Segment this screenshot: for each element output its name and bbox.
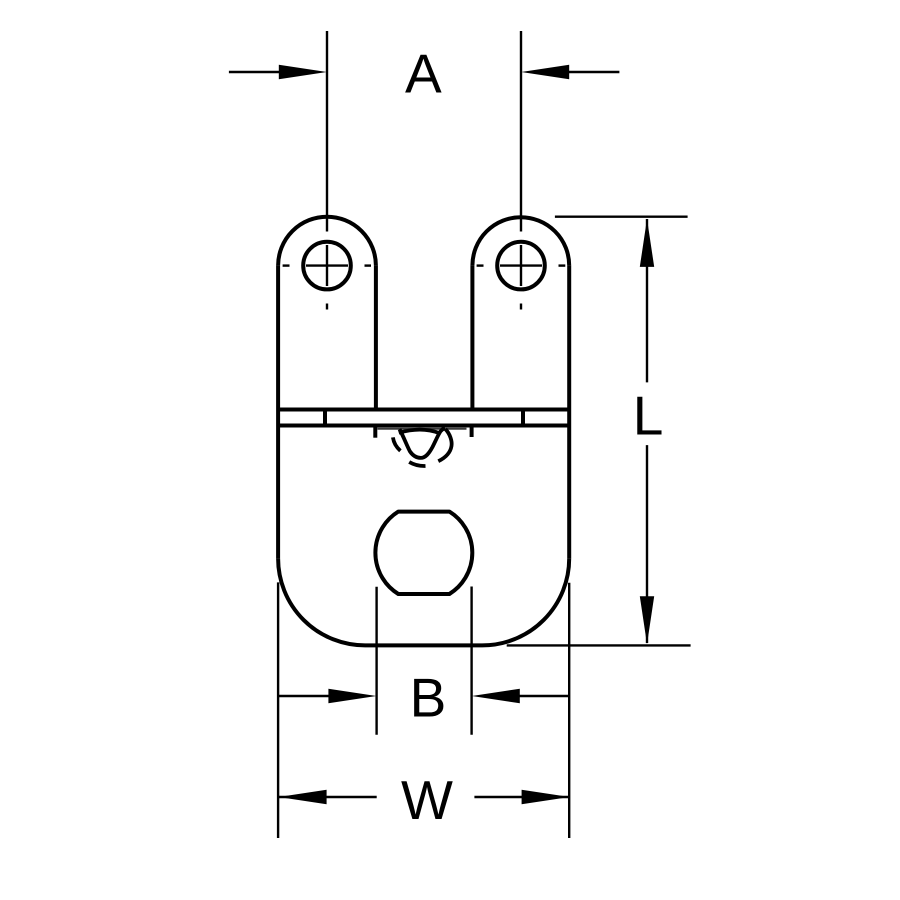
left ear top arc [278,217,376,266]
dim A arrowhead right [521,65,569,80]
svg-text:A: A [405,42,442,104]
left hole centerline horizontal segment [306,264,348,266]
band tick right [521,410,525,426]
dim A extension line right [520,31,522,232]
dim B arrowhead left [328,689,376,704]
spring dimple hidden arc bottom (dashed) [409,462,425,466]
dim W right line segment [474,796,569,798]
dim B extension line left [375,587,377,735]
dim W arrowhead right [522,790,570,805]
spring tab tick left below band [373,426,377,438]
spring dimple hidden arc left (dashed) [393,437,401,450]
dim L line upper segment [646,219,648,382]
left hole centerline vertical dash below [326,304,328,310]
spring dimple cup [400,428,446,458]
right ear inner edge [470,266,474,410]
band bottom line [278,424,569,428]
left ear inner edge [374,266,378,410]
dim B right leader line [518,695,569,697]
dim W extension line left [277,582,279,838]
svg-text:W: W [401,769,453,831]
dim L arrowhead top [640,219,654,267]
right hole circle [497,242,545,290]
dim L line lower segment [646,445,648,643]
right hole centerline vertical dash below [520,304,522,310]
band top line [278,408,569,412]
band tick left [323,410,327,426]
right hole centerline horizontal dash left [477,264,484,266]
spring tab tick right below band [470,426,474,438]
dim A arrowhead left [279,65,327,80]
left hole circle [303,242,351,290]
svg-text:B: B [410,667,447,729]
right hole centerline vertical segment [520,245,522,286]
dim W left line segment [279,796,377,798]
right hole centerline horizontal dash right [559,264,566,266]
right ear top arc [472,217,569,265]
spring dimple rim arc [399,430,440,434]
right hole centerline horizontal segment [500,264,542,266]
dim W arrowhead left [279,790,327,805]
dim B extension line right [470,587,472,735]
dim B left leader line [279,695,330,697]
dim L arrowhead bottom [640,596,654,644]
body left edge [276,266,280,559]
dim W extension line right [568,583,570,838]
spring tab thin seat line [378,428,467,430]
body bottom rounded outline [278,558,569,645]
dim A extension line left [326,31,328,232]
center hole (double-D) [375,512,472,594]
left hole centerline vertical segment [326,245,328,286]
svg-text:L: L [633,385,664,447]
dim A left leader line [229,71,280,73]
spring dimple right solid arc [438,429,451,461]
body right edge [567,266,571,559]
dim L extension line top [555,215,688,217]
dim A right leader line [568,71,619,73]
dim B arrowhead right [472,689,520,704]
left hole centerline horizontal dash right [365,264,372,266]
dim L extension line bottom [507,644,691,646]
left hole centerline horizontal dash left [283,264,290,266]
